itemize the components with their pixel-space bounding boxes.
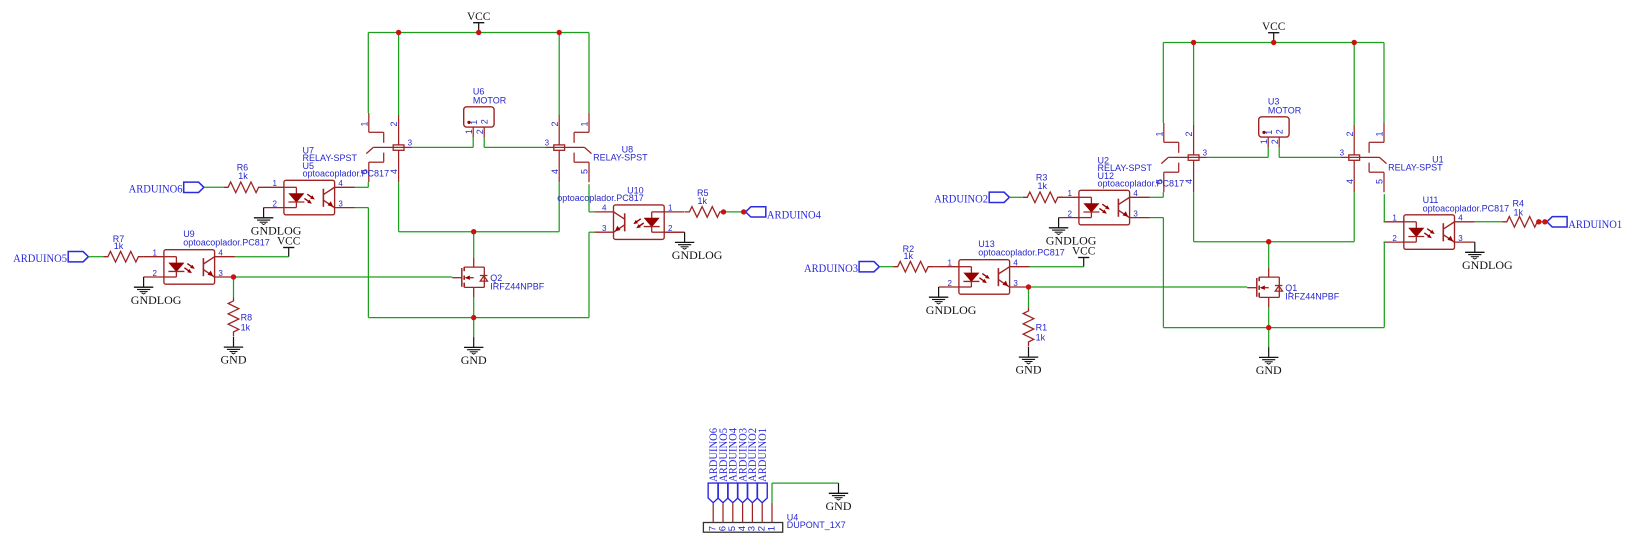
svg-text:GND: GND — [1016, 363, 1042, 377]
node junction VCC/coil U2 — [1191, 40, 1196, 45]
svg-text:1k: 1k — [904, 251, 914, 261]
resistor R8 1k (pull-down) — [228, 297, 239, 336]
svg-text:1: 1 — [1154, 131, 1164, 136]
resistor R1 labels — [1036, 323, 1048, 343]
svg-text:1k: 1k — [1036, 332, 1046, 342]
wire rail to U7 pin 1 — [367, 33, 369, 114]
motor U6 labels — [473, 87, 507, 106]
wire flag ARDUINO2 to R3 — [1009, 196, 1022, 198]
svg-text:ARDUINO1: ARDUINO1 — [1568, 217, 1622, 231]
svg-text:ARDUINO4: ARDUINO4 — [767, 207, 821, 221]
connector pin numbers — [708, 526, 778, 531]
svg-text:2: 2 — [1345, 131, 1355, 136]
ground GNDLOG at U11 pin 3 — [1462, 242, 1513, 272]
ground GNDLOG at U13 pin 2 — [926, 287, 977, 317]
power VCC at U13 pin 4 — [1072, 244, 1096, 267]
motor U3 — [1259, 117, 1289, 148]
svg-text:VCC: VCC — [277, 234, 301, 248]
svg-text:2: 2 — [389, 121, 399, 126]
wire bottom rail to Q2 drain — [473, 232, 475, 258]
optocoupler U13 labels — [978, 239, 1065, 257]
svg-text:1k: 1k — [241, 322, 251, 332]
optocoupler U9 labels — [183, 229, 270, 247]
wire rail to U8 pin 1 — [588, 33, 590, 114]
flag ARDUINO4 (connector pin 5) — [726, 428, 740, 503]
svg-text:1: 1 — [1264, 130, 1274, 135]
optocoupler U5 pin stubs — [264, 187, 355, 207]
optocoupler U5 optoacoplador.PC817 — [272, 179, 343, 215]
svg-text:1k: 1k — [698, 196, 708, 206]
wire U12 pin 3 to ground rail — [1150, 218, 1164, 328]
relay U7 labels — [303, 145, 358, 163]
svg-text:4: 4 — [389, 169, 399, 174]
optocoupler U12 labels — [1098, 171, 1185, 189]
wire U11 pin 4 to R4 — [1475, 221, 1503, 223]
wire to flag — [1539, 221, 1545, 223]
node junction VCC stem — [476, 30, 481, 35]
svg-text:GNDLOG: GNDLOG — [131, 293, 182, 307]
svg-text:VCC: VCC — [467, 9, 491, 23]
svg-text:1k: 1k — [1514, 207, 1524, 217]
node junction VCC stem — [1271, 40, 1276, 45]
wire motor U6 pin 2 to relay U8 pin 3 — [484, 138, 545, 148]
flag ARDUINO3 (connector pin 4) — [735, 428, 749, 503]
node junction at flag ARDUINO4 — [741, 209, 746, 214]
node junction VCC/coil U8 — [557, 30, 562, 35]
svg-text:2: 2 — [1275, 129, 1285, 134]
connector pin 6 stub — [722, 503, 724, 523]
node junction bottom rail / Q1 drain — [1266, 239, 1271, 244]
wire R5 to flag ARDUINO4 — [724, 211, 744, 213]
svg-text:optoacoplador.PC817: optoacoplador.PC817 — [303, 169, 390, 179]
svg-text:ARDUINO6: ARDUINO6 — [129, 182, 183, 196]
svg-text:1k: 1k — [114, 241, 124, 251]
node junction ground rail — [1266, 325, 1271, 330]
node junction at flag ARDUINO1 — [1542, 219, 1547, 224]
motor U3 labels — [1268, 97, 1302, 116]
connector pin 3 stub — [751, 503, 753, 523]
resistor R4 labels — [1513, 199, 1525, 218]
svg-text:RELAY-SPST: RELAY-SPST — [1388, 163, 1443, 173]
svg-text:VCC: VCC — [1072, 244, 1096, 258]
wire ground rail (Q1 source) — [1163, 307, 1384, 327]
svg-text:3: 3 — [1203, 148, 1208, 157]
wire bottom rail to Q1 drain — [1268, 242, 1270, 268]
ground GND at Q1 source — [1256, 328, 1282, 377]
wire U13 pin 3 to Q1 gate — [1029, 286, 1248, 288]
wire motor U3 pin 1 to relay U2 pin 3 — [1207, 148, 1268, 158]
svg-text:1: 1 — [580, 121, 590, 126]
flag ARDUINO3 — [804, 261, 879, 275]
wire U5 pin 4 to relay U7 pin 5 — [355, 182, 368, 187]
motor U6 — [464, 107, 494, 138]
svg-text:2: 2 — [475, 129, 485, 134]
svg-text:3: 3 — [545, 138, 550, 147]
wire U13 pin 4 to VCC — [1030, 266, 1084, 268]
wire relay coils pin 4 bottom rail — [399, 182, 560, 232]
resistor R3 1k — [1023, 192, 1063, 203]
ground GND at R8 — [221, 337, 247, 367]
svg-text:GND: GND — [826, 499, 852, 513]
flag ARDUINO1 — [1547, 217, 1622, 231]
optocoupler U11 labels — [1423, 195, 1510, 213]
svg-text:IRFZ44NPBF: IRFZ44NPBF — [490, 282, 545, 292]
node junction R5 / wire — [721, 209, 726, 214]
svg-text:5: 5 — [1375, 179, 1385, 184]
svg-text:ARDUINO1: ARDUINO1 — [755, 428, 769, 482]
resistor R7 labels — [113, 234, 125, 251]
connector pin 1 stub — [771, 503, 773, 523]
optocoupler U9 pin stubs — [144, 257, 235, 277]
power VCC (top rail) — [467, 9, 491, 33]
svg-text:GNDLOG: GNDLOG — [1462, 258, 1513, 272]
wire rail to U2 pin 1 — [1162, 43, 1164, 124]
svg-text:1: 1 — [464, 129, 474, 134]
transistor Q2 IRFZ44NPBF — [452, 258, 487, 298]
wire U5 pin 3 to ground rail — [355, 208, 369, 318]
optocoupler U10 labels — [557, 186, 644, 203]
optocoupler U12 pin stubs — [1059, 197, 1150, 217]
resistor R1 1k (pull-down) — [1023, 307, 1034, 346]
wire rail to U1 pin 1 — [1383, 43, 1385, 124]
wire U9 pin 3 to Q2 gate — [234, 276, 453, 278]
resistor R5 labels — [697, 188, 709, 206]
relay U7 (RELAY-SPST) — [359, 113, 412, 182]
svg-text:1k: 1k — [238, 171, 248, 181]
svg-text:DUPONT_1X7: DUPONT_1X7 — [787, 520, 846, 530]
resistor R6 1k — [224, 182, 264, 193]
resistor R7 1k — [103, 251, 143, 262]
wire flag ARDUINO3 to R2 — [879, 266, 893, 268]
svg-text:2: 2 — [1270, 139, 1280, 144]
optocoupler U10 optoacoplador.PC817 — [602, 204, 673, 240]
wire U10 pin 4 to relay U8 pin 5 — [589, 184, 594, 212]
connector pin 1 wire to GND — [772, 483, 839, 503]
relay U8 labels — [593, 145, 648, 163]
svg-text:1: 1 — [469, 120, 479, 125]
optocoupler U9 optoacoplador.PC817 — [152, 249, 223, 285]
relay U1 labels — [1388, 155, 1444, 173]
optocoupler U13 optoacoplador.PC817 — [947, 259, 1018, 295]
flag ARDUINO6 — [129, 182, 204, 196]
svg-text:4: 4 — [1184, 179, 1194, 184]
flag ARDUINO6 (connector pin 7) — [706, 428, 720, 503]
svg-text:optoacoplador.PC817: optoacoplador.PC817 — [183, 238, 270, 248]
node junction VCC/coil U1 — [1352, 40, 1357, 45]
svg-text:RELAY-SPST: RELAY-SPST — [593, 153, 648, 163]
wire junction to resistor R8 — [233, 277, 235, 297]
ground GNDLOG at U12 pin 2 — [1046, 218, 1097, 248]
node junction R4 — [1536, 219, 1541, 224]
flag ARDUINO5 — [13, 251, 88, 265]
ground GNDLOG at U5 pin 2 — [251, 208, 302, 238]
optocoupler U5 labels — [303, 161, 390, 179]
wire ground rail (Q2 source) — [368, 297, 589, 317]
connector pin 7 stub — [712, 503, 714, 523]
resistor R6 labels — [237, 162, 249, 181]
flag ARDUINO2 (connector pin 3) — [745, 428, 759, 503]
optocoupler U10 pin stubs — [594, 212, 684, 232]
relay U2 labels — [1098, 155, 1153, 173]
svg-text:1: 1 — [359, 121, 369, 126]
ground GNDLOG at U9 pin 2 — [131, 277, 182, 307]
wire rail to U8 coil pin 2 — [558, 33, 560, 116]
wire flag ARDUINO5 to R7 — [88, 256, 103, 258]
flag ARDUINO5 (connector pin 6) — [716, 428, 730, 503]
svg-text:GND: GND — [1256, 363, 1282, 377]
svg-text:R1: R1 — [1036, 323, 1048, 333]
transistor Q1 labels — [1285, 283, 1340, 301]
wire U10 pin 3 to ground rail — [589, 232, 594, 317]
svg-text:2: 2 — [480, 119, 490, 124]
resistor R3 labels — [1036, 172, 1048, 191]
svg-text:IRFZ44NPBF: IRFZ44NPBF — [1285, 292, 1340, 302]
wire rail to U1 coil pin 2 — [1353, 43, 1355, 126]
wire relay coils pin 4 bottom rail — [1194, 192, 1355, 242]
node junction bottom rail / Q2 drain — [471, 229, 476, 234]
svg-text:MOTOR: MOTOR — [1268, 105, 1302, 115]
resistor R2 1k — [893, 261, 938, 272]
flag ARDUINO2 — [934, 192, 1009, 206]
relay U1 (RELAY-SPST) — [1340, 123, 1387, 192]
optocoupler U12 optoacoplador.PC817 — [1067, 189, 1138, 225]
svg-text:GND: GND — [461, 353, 487, 367]
svg-text:GNDLOG: GNDLOG — [926, 303, 977, 317]
flag ARDUINO1 (connector pin 2) — [755, 428, 769, 503]
svg-text:optoacoplador.PC817: optoacoplador.PC817 — [1423, 204, 1510, 214]
wire U11 pin 2 to ground rail — [1383, 242, 1386, 328]
wire motor U6 pin 1 to relay U7 pin 3 — [412, 138, 473, 148]
wire rail to U7 coil pin 2 — [398, 33, 400, 116]
wire rail to U2 coil pin 2 — [1193, 43, 1195, 126]
ground GND at Q2 source — [461, 318, 487, 367]
svg-text:optoacoplador.PC817: optoacoplador.PC817 — [1098, 179, 1185, 189]
svg-text:ARDUINO5: ARDUINO5 — [13, 251, 67, 265]
resistor R8 labels — [241, 313, 253, 333]
connector pin 4 stub — [742, 503, 744, 523]
svg-text:1: 1 — [766, 526, 777, 531]
resistor R2 labels — [903, 244, 915, 261]
svg-text:MOTOR: MOTOR — [473, 95, 507, 105]
node junction ground rail — [471, 315, 476, 320]
resistor R4 1k — [1502, 217, 1539, 228]
optocoupler U11 pin stubs — [1384, 222, 1475, 242]
node junction U9 pin 3 / R8 — [231, 274, 236, 279]
power VCC at U9 pin 4 — [277, 234, 301, 257]
optocoupler U11 optoacoplador.PC817 — [1392, 214, 1463, 250]
node junction U13 pin 3 / R1 — [1026, 284, 1031, 289]
node junction VCC/coil U7 — [396, 30, 401, 35]
svg-text:GND: GND — [221, 353, 247, 367]
svg-text:1k: 1k — [1038, 181, 1048, 191]
power VCC (top rail) — [1262, 19, 1286, 43]
svg-text:ARDUINO2: ARDUINO2 — [934, 192, 988, 206]
svg-text:1: 1 — [1375, 131, 1385, 136]
svg-text:5: 5 — [580, 169, 590, 174]
svg-text:ARDUINO3: ARDUINO3 — [804, 261, 858, 275]
wire U12 pin 4 to relay U2 pin 5 — [1150, 192, 1163, 197]
connector U4 DUPONT_1X7 body — [703, 523, 782, 533]
svg-text:3: 3 — [1340, 148, 1345, 157]
svg-text:VCC: VCC — [1262, 19, 1286, 33]
wire U11 pin 1 to relay U1 pin 5 — [1383, 194, 1386, 222]
wire U9 pin 4 to VCC — [235, 256, 289, 258]
ground GND at connector pin 1 — [826, 483, 852, 513]
wire VCC top rail — [1163, 42, 1384, 44]
wire motor U3 pin 2 to relay U1 pin 3 — [1279, 148, 1340, 158]
resistor R5 1k — [685, 207, 724, 218]
svg-text:optoacoplador.PC817: optoacoplador.PC817 — [978, 248, 1065, 258]
optocoupler U13 pin stubs — [939, 267, 1030, 287]
transistor Q1 IRFZ44NPBF — [1247, 268, 1282, 308]
svg-text:4: 4 — [1345, 179, 1355, 184]
wire flag ARDUINO6 to R6 — [204, 186, 224, 188]
svg-text:R8: R8 — [241, 313, 253, 323]
connector pin 5 stub — [732, 503, 734, 523]
svg-text:1: 1 — [1259, 139, 1269, 144]
svg-text:GNDLOG: GNDLOG — [672, 248, 723, 262]
svg-text:2: 2 — [550, 121, 560, 126]
ground GNDLOG at U10 pin 2 — [664, 232, 723, 262]
connector U4 labels — [787, 512, 846, 530]
relay U2 (RELAY-SPST) — [1154, 123, 1207, 192]
svg-text:optoacoplador.PC817: optoacoplador.PC817 — [557, 193, 644, 203]
transistor Q2 labels — [490, 273, 545, 291]
connector pin 2 stub — [761, 503, 763, 523]
wire junction to resistor R1 — [1028, 287, 1030, 307]
svg-text:3: 3 — [408, 138, 413, 147]
svg-text:4: 4 — [550, 169, 560, 174]
ground GND at R1 — [1016, 347, 1042, 377]
flag ARDUINO4 — [746, 207, 821, 222]
svg-text:2: 2 — [1184, 131, 1194, 136]
relay U8 (RELAY-SPST) — [545, 113, 592, 182]
wire VCC top rail — [368, 32, 589, 34]
